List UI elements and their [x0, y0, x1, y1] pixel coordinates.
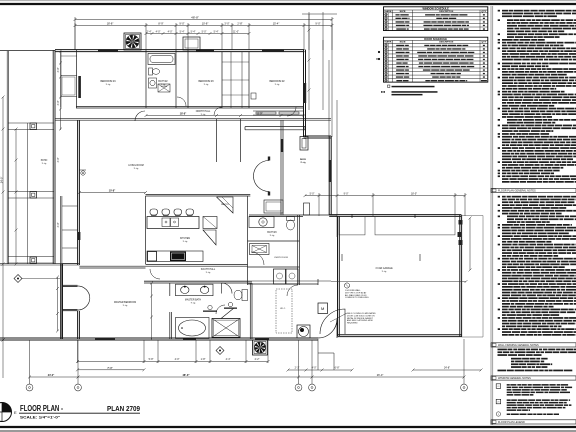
patio south edge	[0, 263, 79, 265]
svg-text:6'-8": 6'-8"	[335, 367, 340, 370]
bottom dim line level1	[76, 340, 483, 372]
svg-text:4'-0": 4'-0"	[175, 358, 180, 361]
window schedule table	[384, 6, 488, 30]
svg-text:SCALE: 1/4"=1'-0": SCALE: 1/4"=1'-0"	[20, 414, 60, 419]
svg-text:E: E	[14, 410, 17, 415]
bottom extension lines	[3, 339, 464, 384]
master bedroom west wall	[61, 264, 63, 339]
master tub	[176, 318, 210, 339]
svg-text:LNDRY ROOM: LNDRY ROOM	[274, 257, 288, 259]
patio beam lines	[8, 123, 54, 263]
bedroom4 closet walls	[61, 52, 77, 107]
svg-text:SIZE: SIZE	[400, 11, 407, 13]
window legend item 2	[496, 399, 501, 404]
bump-out wall to dining	[304, 136, 332, 138]
garage door recess 2	[375, 214, 455, 235]
garage north wall	[329, 215, 461, 217]
bedroom block south wall	[76, 107, 304, 109]
notes column left border	[491, 6, 493, 425]
rear dim line above garage	[304, 193, 467, 216]
master french doors	[63, 285, 90, 310]
svg-text:2'-4": 2'-4"	[147, 31, 152, 34]
left vertical dimension chain	[3, 50, 62, 341]
svg-text:REQUIRED: REQUIRED	[347, 323, 358, 325]
kitchen fridge	[148, 252, 157, 262]
svg-text:NORTH HALL: NORTH HALL	[196, 110, 211, 113]
wic dashed closet	[276, 289, 292, 333]
kitchen range	[170, 252, 186, 262]
svg-text:PANTRY: PANTRY	[221, 203, 230, 206]
schedule note 2	[381, 91, 438, 95]
svg-text:9' clg: 9' clg	[201, 114, 206, 116]
svg-text:5'-0": 5'-0"	[202, 31, 207, 34]
master shower	[212, 319, 240, 338]
master bath partitions	[250, 283, 252, 339]
svg-text:WINDOW GENERAL NOTES: WINDOW GENERAL NOTES	[498, 377, 531, 380]
north arrow	[0, 402, 17, 422]
svg-text:SIZE: SIZE	[400, 42, 407, 44]
svg-text:WALL FRAMING GENERAL NOTES: WALL FRAMING GENERAL NOTES	[498, 344, 539, 347]
svg-text:5'-4": 5'-4"	[191, 31, 196, 34]
living west window	[78, 232, 81, 240]
svg-text:QTY: QTY	[481, 11, 487, 13]
living room ceiling symbol	[79, 170, 86, 175]
garage west wall	[338, 216, 340, 336]
bedroom4/bath2 wall	[145, 50, 147, 108]
patio post 3	[30, 257, 37, 264]
wall framing paragraph	[498, 349, 576, 372]
bath wc diagonal	[216, 305, 234, 319]
svg-text:1'-8": 1'-8"	[201, 358, 206, 361]
south wall windows	[95, 338, 115, 341]
svg-text:8'-9": 8'-9"	[158, 22, 163, 26]
furnace M box	[318, 303, 328, 314]
hall partitions	[217, 119, 241, 162]
bedroom4 north window	[98, 49, 118, 52]
top overall dimension line	[74, 17, 334, 137]
laundry washer dryer	[274, 269, 299, 284]
west exterior wall (upper colonnade)	[53, 50, 55, 264]
svg-text:3 CAR GARAGE: 3 CAR GARAGE	[375, 267, 393, 270]
bedroom2 east window	[304, 83, 307, 103]
window legend item 1	[496, 384, 501, 389]
attic fan south	[253, 340, 268, 355]
sheet bottom border	[0, 427, 576, 431]
hall east wall	[281, 120, 283, 216]
svg-text:9'-0": 9'-0"	[315, 22, 320, 26]
window general notes header	[491, 376, 576, 380]
bath2 sink vanity	[149, 78, 157, 88]
svg-text:9'-0": 9'-0"	[179, 22, 184, 26]
bath2 east wall	[176, 50, 188, 108]
bath keynote circles	[203, 302, 237, 312]
svg-text:MARK: MARK	[385, 41, 392, 44]
svg-text:3'-0": 3'-0"	[224, 22, 229, 26]
svg-text:BEDROOM #4: BEDROOM #4	[100, 81, 116, 83]
bedroom4 west wall	[76, 50, 78, 108]
svg-text:18'-8": 18'-8"	[107, 22, 114, 26]
mud wall to garage	[317, 279, 319, 285]
north hall south wall	[55, 119, 331, 121]
top segment dimension line	[74, 23, 334, 50]
west ladder colonnade	[61, 196, 78, 339]
svg-text:9' clg: 9' clg	[134, 168, 139, 170]
water heater	[297, 325, 310, 338]
corner pantry	[203, 230, 216, 245]
south hall south wall	[144, 280, 331, 282]
svg-text:9'-0": 9'-0"	[344, 193, 349, 196]
hall east window	[281, 139, 284, 152]
svg-text:4'-0": 4'-0"	[57, 222, 60, 227]
north exterior wall	[55, 50, 305, 52]
svg-text:10'-8": 10'-8"	[202, 22, 209, 26]
garage fire note	[344, 283, 369, 299]
garage eave line	[462, 216, 483, 338]
title underline	[19, 412, 140, 414]
hall door arcs	[150, 97, 298, 296]
svg-text:BATH #3: BATH #3	[267, 231, 277, 234]
svg-text:5'-8": 5'-8"	[149, 358, 154, 361]
east wall of bedroom2	[304, 50, 306, 137]
third level dimension line	[145, 32, 251, 35]
living nook door	[135, 111, 145, 121]
entry step lines	[318, 339, 334, 370]
svg-text:MARK: MARK	[385, 10, 392, 13]
svg-text:##: ##	[497, 386, 500, 388]
svg-text:FLOOR PLAN LEGEND: FLOOR PLAN LEGEND	[498, 421, 525, 424]
bath2 toilet	[149, 68, 160, 75]
svg-text:9' clg: 9' clg	[161, 84, 166, 86]
svg-text:24'-8": 24'-8"	[444, 367, 450, 370]
wall framing general notes header	[491, 343, 576, 347]
keynote diamond south	[216, 347, 224, 355]
dining window (east)	[329, 160, 332, 182]
bath3 and laundry walls	[248, 196, 338, 285]
svg-text:26'-0": 26'-0"	[377, 373, 384, 377]
svg-text:11'-0": 11'-0"	[233, 31, 239, 34]
svg-text:4'-0": 4'-0"	[57, 157, 60, 162]
south exterior wall	[0, 338, 318, 340]
bath2 tub	[148, 54, 175, 65]
kitchen rear counter	[147, 251, 203, 262]
svg-text:SOUTH HALL: SOUTH HALL	[201, 268, 216, 271]
corner shower bath3	[264, 200, 283, 213]
front entry door	[318, 319, 337, 338]
schedule note 1	[388, 85, 435, 87]
kitchen/living divider wall	[146, 195, 251, 197]
living west wall	[78, 120, 80, 339]
svg-text:4'-0": 4'-0"	[312, 367, 317, 370]
svg-text:BEDROOM #3: BEDROOM #3	[198, 81, 214, 83]
south wall master window	[183, 338, 196, 341]
bath2 top cabinet box	[183, 37, 200, 50]
patio post 2	[30, 192, 37, 199]
svg-text:MASTER BEDROOM: MASTER BEDROOM	[114, 301, 136, 304]
svg-text:48'-8": 48'-8"	[191, 16, 199, 20]
kitchen west wall	[145, 196, 147, 264]
svg-text:4'-0": 4'-0"	[156, 31, 161, 34]
hall closet band	[245, 127, 305, 130]
kitchen island sink	[162, 218, 179, 227]
svg-text:DESCRIPTION: DESCRIPTION	[439, 42, 453, 44]
bath3 vanity sink	[249, 217, 274, 228]
svg-text:4'-0": 4'-0"	[57, 100, 60, 105]
bedroom3 window (north)	[196, 49, 214, 52]
svg-text:W.I.C.: W.I.C.	[280, 308, 286, 310]
patio roof edge line	[0, 50, 55, 52]
garage south wall	[338, 335, 462, 337]
svg-text:9' clg: 9' clg	[183, 241, 188, 243]
svg-text:18'-8": 18'-8"	[180, 113, 187, 116]
master bath west wall	[170, 283, 172, 339]
garage door note	[330, 312, 376, 325]
svg-text:BATH #2: BATH #2	[158, 80, 168, 83]
svg-text:MASTER BATH: MASTER BATH	[185, 299, 202, 302]
svg-text:7'-4": 7'-4"	[107, 367, 112, 370]
kitchen bar stools	[150, 209, 194, 216]
svg-text:9' clg: 9' clg	[206, 272, 211, 274]
garage east wall fixtures	[458, 220, 463, 245]
svg-text:DESCRIPTION: DESCRIPTION	[439, 11, 453, 13]
floor plan general notes header	[491, 188, 576, 192]
floor plan legend header	[491, 420, 576, 424]
patio post 1	[30, 123, 37, 130]
attic fan north	[124, 33, 141, 50]
garage entry door arc	[320, 309, 345, 334]
svg-text:5'-4": 5'-4"	[214, 31, 219, 34]
svg-text:LIVING ROOM: LIVING ROOM	[128, 165, 143, 167]
svg-text:24'-0": 24'-0"	[48, 374, 55, 377]
svg-text:4'-0": 4'-0"	[168, 31, 173, 34]
master bath left dim chain	[56, 276, 153, 341]
svg-text:9' clg: 9' clg	[204, 84, 209, 86]
garage mid line	[331, 281, 466, 283]
bedroom3 closet walls	[222, 52, 249, 108]
garage right dim chain	[469, 217, 472, 272]
door schedule table	[384, 37, 488, 82]
svg-text:4'-4": 4'-4"	[226, 358, 231, 361]
svg-text:9' clg: 9' clg	[123, 305, 128, 307]
right upper dimension chain	[302, 12, 337, 237]
master bath vanity	[176, 284, 214, 296]
svg-text:KITCHEN: KITCHEN	[180, 238, 190, 240]
bedroom2 keynote box	[251, 93, 256, 99]
svg-text:FLOOR PLAN -: FLOOR PLAN -	[20, 404, 63, 413]
svg-text:9' clg: 9' clg	[300, 162, 306, 164]
bedroom2 window (north)	[262, 49, 284, 52]
garage door recess 1	[339, 214, 365, 235]
svg-text:18'-0": 18'-0"	[411, 193, 417, 196]
east exterior wall (dining)	[329, 136, 331, 215]
corner pantry upper	[217, 197, 234, 213]
svg-text:WINDOW SCHEDULE: WINDOW SCHEDULE	[422, 6, 449, 10]
svg-text:M: M	[321, 306, 324, 311]
floor plan general notes text	[498, 196, 576, 336]
svg-text:15'-4": 15'-4"	[273, 22, 280, 26]
hall mid dim	[145, 114, 306, 117]
svg-text:2'-3": 2'-3"	[295, 367, 300, 370]
bath3 toilet	[287, 217, 295, 231]
garage interior post ticks	[342, 254, 420, 261]
svg-text:2'-2": 2'-2"	[255, 358, 260, 361]
svg-text:9' clg: 9' clg	[275, 84, 280, 86]
svg-text:PATIO: PATIO	[41, 159, 48, 162]
bath2 label box	[158, 84, 170, 92]
south hall north wall	[79, 265, 247, 269]
svg-text:##: ##	[497, 402, 500, 404]
patio west edge	[7, 51, 9, 264]
svg-text:4'-0": 4'-0"	[57, 67, 60, 72]
chimney box	[300, 137, 308, 151]
dining double doors	[254, 157, 271, 196]
kitchen island counter	[147, 217, 199, 229]
garage east wall	[460, 215, 462, 337]
svg-text:QTY: QTY	[481, 42, 487, 44]
svg-text:2'-8": 2'-8"	[237, 22, 242, 26]
living kitchen dim	[78, 191, 147, 194]
svg-text:9' clg: 9' clg	[42, 163, 47, 165]
bedroom4 window (left)	[78, 76, 81, 98]
svg-text:9' clg: 9' clg	[270, 235, 275, 237]
pantry cab	[203, 217, 217, 229]
svg-text:5'-4": 5'-4"	[180, 31, 185, 34]
svg-text:9' clg: 9' clg	[382, 271, 387, 273]
sheet top border	[0, 1, 576, 4]
svg-text:10'-8": 10'-8"	[109, 190, 116, 193]
svg-text:PLAN 2709: PLAN 2709	[107, 404, 140, 413]
svg-text:24'-0": 24'-0"	[0, 177, 4, 184]
window legend circle item	[496, 412, 500, 416]
grid bubbles	[26, 384, 33, 391]
bottom overall dim line	[28, 376, 466, 379]
svg-text:BEDROOM #2: BEDROOM #2	[269, 81, 285, 83]
linen closet	[250, 244, 270, 255]
keynote diamond west	[14, 275, 60, 283]
bath entry arc	[222, 283, 233, 294]
master wc toilet	[234, 290, 248, 301]
svg-text:5'-0": 5'-0"	[310, 193, 315, 196]
svg-text:DOOR SCHEDULE: DOOR SCHEDULE	[424, 37, 447, 41]
general notes text (upper)	[498, 10, 576, 183]
svg-text:COMMON TO DWELLING: COMMON TO DWELLING	[345, 297, 369, 299]
svg-text:FLOOR PLAN GENERAL NOTES: FLOOR PLAN GENERAL NOTES	[498, 190, 536, 193]
door schedule keynote dots	[376, 51, 380, 60]
svg-text:9' clg: 9' clg	[106, 84, 111, 86]
patio inner edge	[27, 123, 29, 264]
left edge dim ticks	[2, 96, 5, 342]
master bath north wall	[144, 281, 252, 283]
svg-text:9' clg: 9' clg	[191, 302, 196, 304]
svg-text:DECK: DECK	[300, 159, 307, 161]
bedroom2 closet strip	[253, 111, 304, 115]
rear slider door	[304, 203, 310, 215]
svg-text:48'-0": 48'-0"	[182, 373, 190, 377]
